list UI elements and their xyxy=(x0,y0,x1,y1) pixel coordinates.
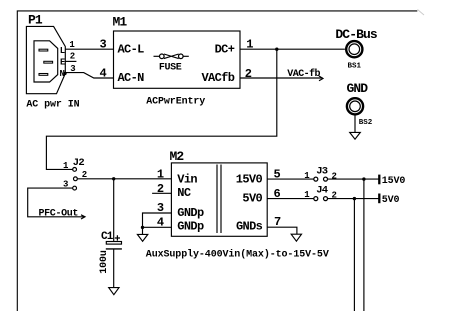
fuse F1 right circle xyxy=(179,54,184,59)
svg-text:AC-N: AC-N xyxy=(118,71,145,85)
wire M1.1 DC+ to BS1 xyxy=(240,48,345,50)
svg-text:100u: 100u xyxy=(99,250,110,274)
wire M2.3 M2.4 to ground xyxy=(143,213,172,234)
P1 pin 2 E stub xyxy=(65,60,76,62)
fuse F1 right lead xyxy=(183,55,189,57)
P1 pin N dot xyxy=(63,72,66,75)
svg-text:1: 1 xyxy=(63,161,69,171)
ground symbol below C1 xyxy=(109,288,119,295)
svg-text:DC+: DC+ xyxy=(215,42,235,56)
svg-text:J4: J4 xyxy=(316,185,328,197)
svg-text:J2: J2 xyxy=(73,157,85,169)
wire M2.7 GNDs to ground xyxy=(267,227,297,234)
wire M2.5 to J3.1 xyxy=(267,178,314,180)
svg-text:4: 4 xyxy=(100,66,107,80)
wire DC+ branch down to J2.1 xyxy=(46,49,276,169)
wire P1.1 L to M1.3 xyxy=(65,48,113,50)
wire 15V0 down xyxy=(363,179,365,311)
svg-text:2: 2 xyxy=(245,67,252,81)
svg-text:L: L xyxy=(60,46,65,56)
wire M2.6 to J4.1 xyxy=(267,198,314,200)
net label VAC-fb wire xyxy=(240,77,323,79)
connector BS2 GND jack outer ring xyxy=(347,98,363,114)
svg-text:GNDs: GNDs xyxy=(236,219,263,233)
wire J3.2 to 15V0 rail xyxy=(328,178,380,180)
connector BS1 DC-Bus jack inner ring xyxy=(349,44,360,55)
capacitor C1 plus sign xyxy=(115,235,120,240)
net label PFC-Out arrowhead xyxy=(81,215,85,219)
svg-text:5V0: 5V0 xyxy=(382,195,400,206)
connector J4 pin 1 circle xyxy=(314,197,318,201)
module M1 box xyxy=(114,31,241,88)
ground symbol GNDp xyxy=(137,234,147,241)
connector BS2 GND jack inner ring xyxy=(350,101,361,112)
svg-text:AC-L: AC-L xyxy=(118,42,145,56)
svg-text:BS2: BS2 xyxy=(359,119,373,127)
connector J4 pin 2 circle xyxy=(324,197,328,201)
connector J3 pin 2 circle xyxy=(324,177,328,181)
svg-text:Vin: Vin xyxy=(177,173,197,187)
ground symbol below BS2 xyxy=(350,132,361,139)
module M2 box xyxy=(171,163,267,236)
svg-text:3: 3 xyxy=(70,64,75,74)
wire 5V0 down xyxy=(353,199,355,311)
svg-text:P1: P1 xyxy=(28,13,43,28)
transformer isolation bars M2 xyxy=(217,165,221,234)
connector J2 pin 2 circle xyxy=(74,177,78,181)
connector P1 outer shell xyxy=(26,26,65,93)
M2 pin 2 stub xyxy=(152,192,171,194)
svg-text:M1: M1 xyxy=(113,14,128,29)
svg-text:ACPwrEntry: ACPwrEntry xyxy=(146,97,205,108)
junction C1 tap xyxy=(112,177,115,180)
connector BS1 DC-Bus jack outer ring xyxy=(346,41,362,57)
capacitor C1 top wire xyxy=(113,179,115,242)
svg-text:C1: C1 xyxy=(101,231,114,243)
svg-text:1: 1 xyxy=(304,171,310,181)
svg-text:15V0: 15V0 xyxy=(236,173,263,187)
fuse F1 crossed wires xyxy=(164,54,179,59)
P1 slot L xyxy=(39,49,48,51)
svg-text:J3: J3 xyxy=(316,166,328,178)
connector J2 pin 1 circle xyxy=(73,168,77,172)
ground symbol GNDs xyxy=(291,234,301,241)
power bar 5V0 xyxy=(378,194,380,204)
connector J2 pin 3 circle xyxy=(73,186,77,190)
capacitor C1 top plate xyxy=(106,242,121,245)
svg-text:FUSE: FUSE xyxy=(159,63,182,74)
svg-text:1: 1 xyxy=(157,168,164,182)
svg-text:5: 5 xyxy=(274,167,281,181)
svg-text:GNDp: GNDp xyxy=(177,206,204,220)
svg-text:4: 4 xyxy=(157,215,164,229)
power bar 15V0 xyxy=(378,175,380,185)
svg-text:3: 3 xyxy=(63,180,68,190)
junction GNDp node xyxy=(141,226,144,229)
capacitor C1 bottom wire xyxy=(113,249,115,288)
svg-text:6: 6 xyxy=(274,187,281,201)
svg-text:2: 2 xyxy=(70,52,75,62)
P1 slot N xyxy=(39,74,48,76)
junction 5V0 node xyxy=(353,197,356,200)
svg-text:VAC-fb: VAC-fb xyxy=(287,68,320,80)
svg-text:1: 1 xyxy=(246,37,253,51)
svg-text:NC: NC xyxy=(177,186,191,200)
svg-text:GND: GND xyxy=(347,81,369,96)
svg-text:BS1: BS1 xyxy=(348,62,362,70)
P1 slot E xyxy=(44,61,53,63)
svg-text:VACfb: VACfb xyxy=(202,71,235,85)
junction DC-Bus node xyxy=(275,48,278,51)
svg-text:7: 7 xyxy=(274,215,281,229)
net label VAC-fb arrowhead xyxy=(319,76,323,81)
svg-text:N: N xyxy=(60,69,65,79)
connector P1 inner face xyxy=(34,41,58,82)
svg-text:1: 1 xyxy=(69,40,75,50)
svg-text:2: 2 xyxy=(82,170,87,180)
svg-text:PFC-Out: PFC-Out xyxy=(39,208,79,219)
connector J3 pin 1 circle xyxy=(314,177,318,181)
svg-text:AuxSupply-400Vin(Max)-to-15V-5: AuxSupply-400Vin(Max)-to-15V-5V xyxy=(146,248,329,260)
svg-text:3: 3 xyxy=(157,201,164,215)
wire J4.2 to 5V0 rail xyxy=(328,198,380,200)
fuse F1 left lead xyxy=(154,55,160,57)
svg-text:3: 3 xyxy=(100,37,107,51)
svg-text:5V0: 5V0 xyxy=(242,192,262,206)
capacitor C1 bottom plate xyxy=(106,248,122,250)
wire J2.2 to M2.1 xyxy=(77,178,171,180)
svg-text:2: 2 xyxy=(332,172,337,182)
svg-text:E: E xyxy=(60,58,66,68)
svg-text:15V0: 15V0 xyxy=(382,176,406,187)
fuse F1 left circle xyxy=(160,54,165,59)
svg-text:AC pwr IN: AC pwr IN xyxy=(26,100,79,111)
svg-text:1: 1 xyxy=(304,190,310,200)
svg-text:GNDp: GNDp xyxy=(177,220,204,234)
junction 15V0 node xyxy=(362,177,365,180)
svg-text:2: 2 xyxy=(332,191,337,201)
svg-text:DC-Bus: DC-Bus xyxy=(335,27,378,42)
wire BS2 to ground xyxy=(354,115,356,132)
wire P1.3 N to M1.4 xyxy=(65,73,113,78)
svg-text:2: 2 xyxy=(157,182,164,196)
wire J2.3 to PFC-Out xyxy=(28,188,85,217)
svg-text:M2: M2 xyxy=(170,149,185,164)
